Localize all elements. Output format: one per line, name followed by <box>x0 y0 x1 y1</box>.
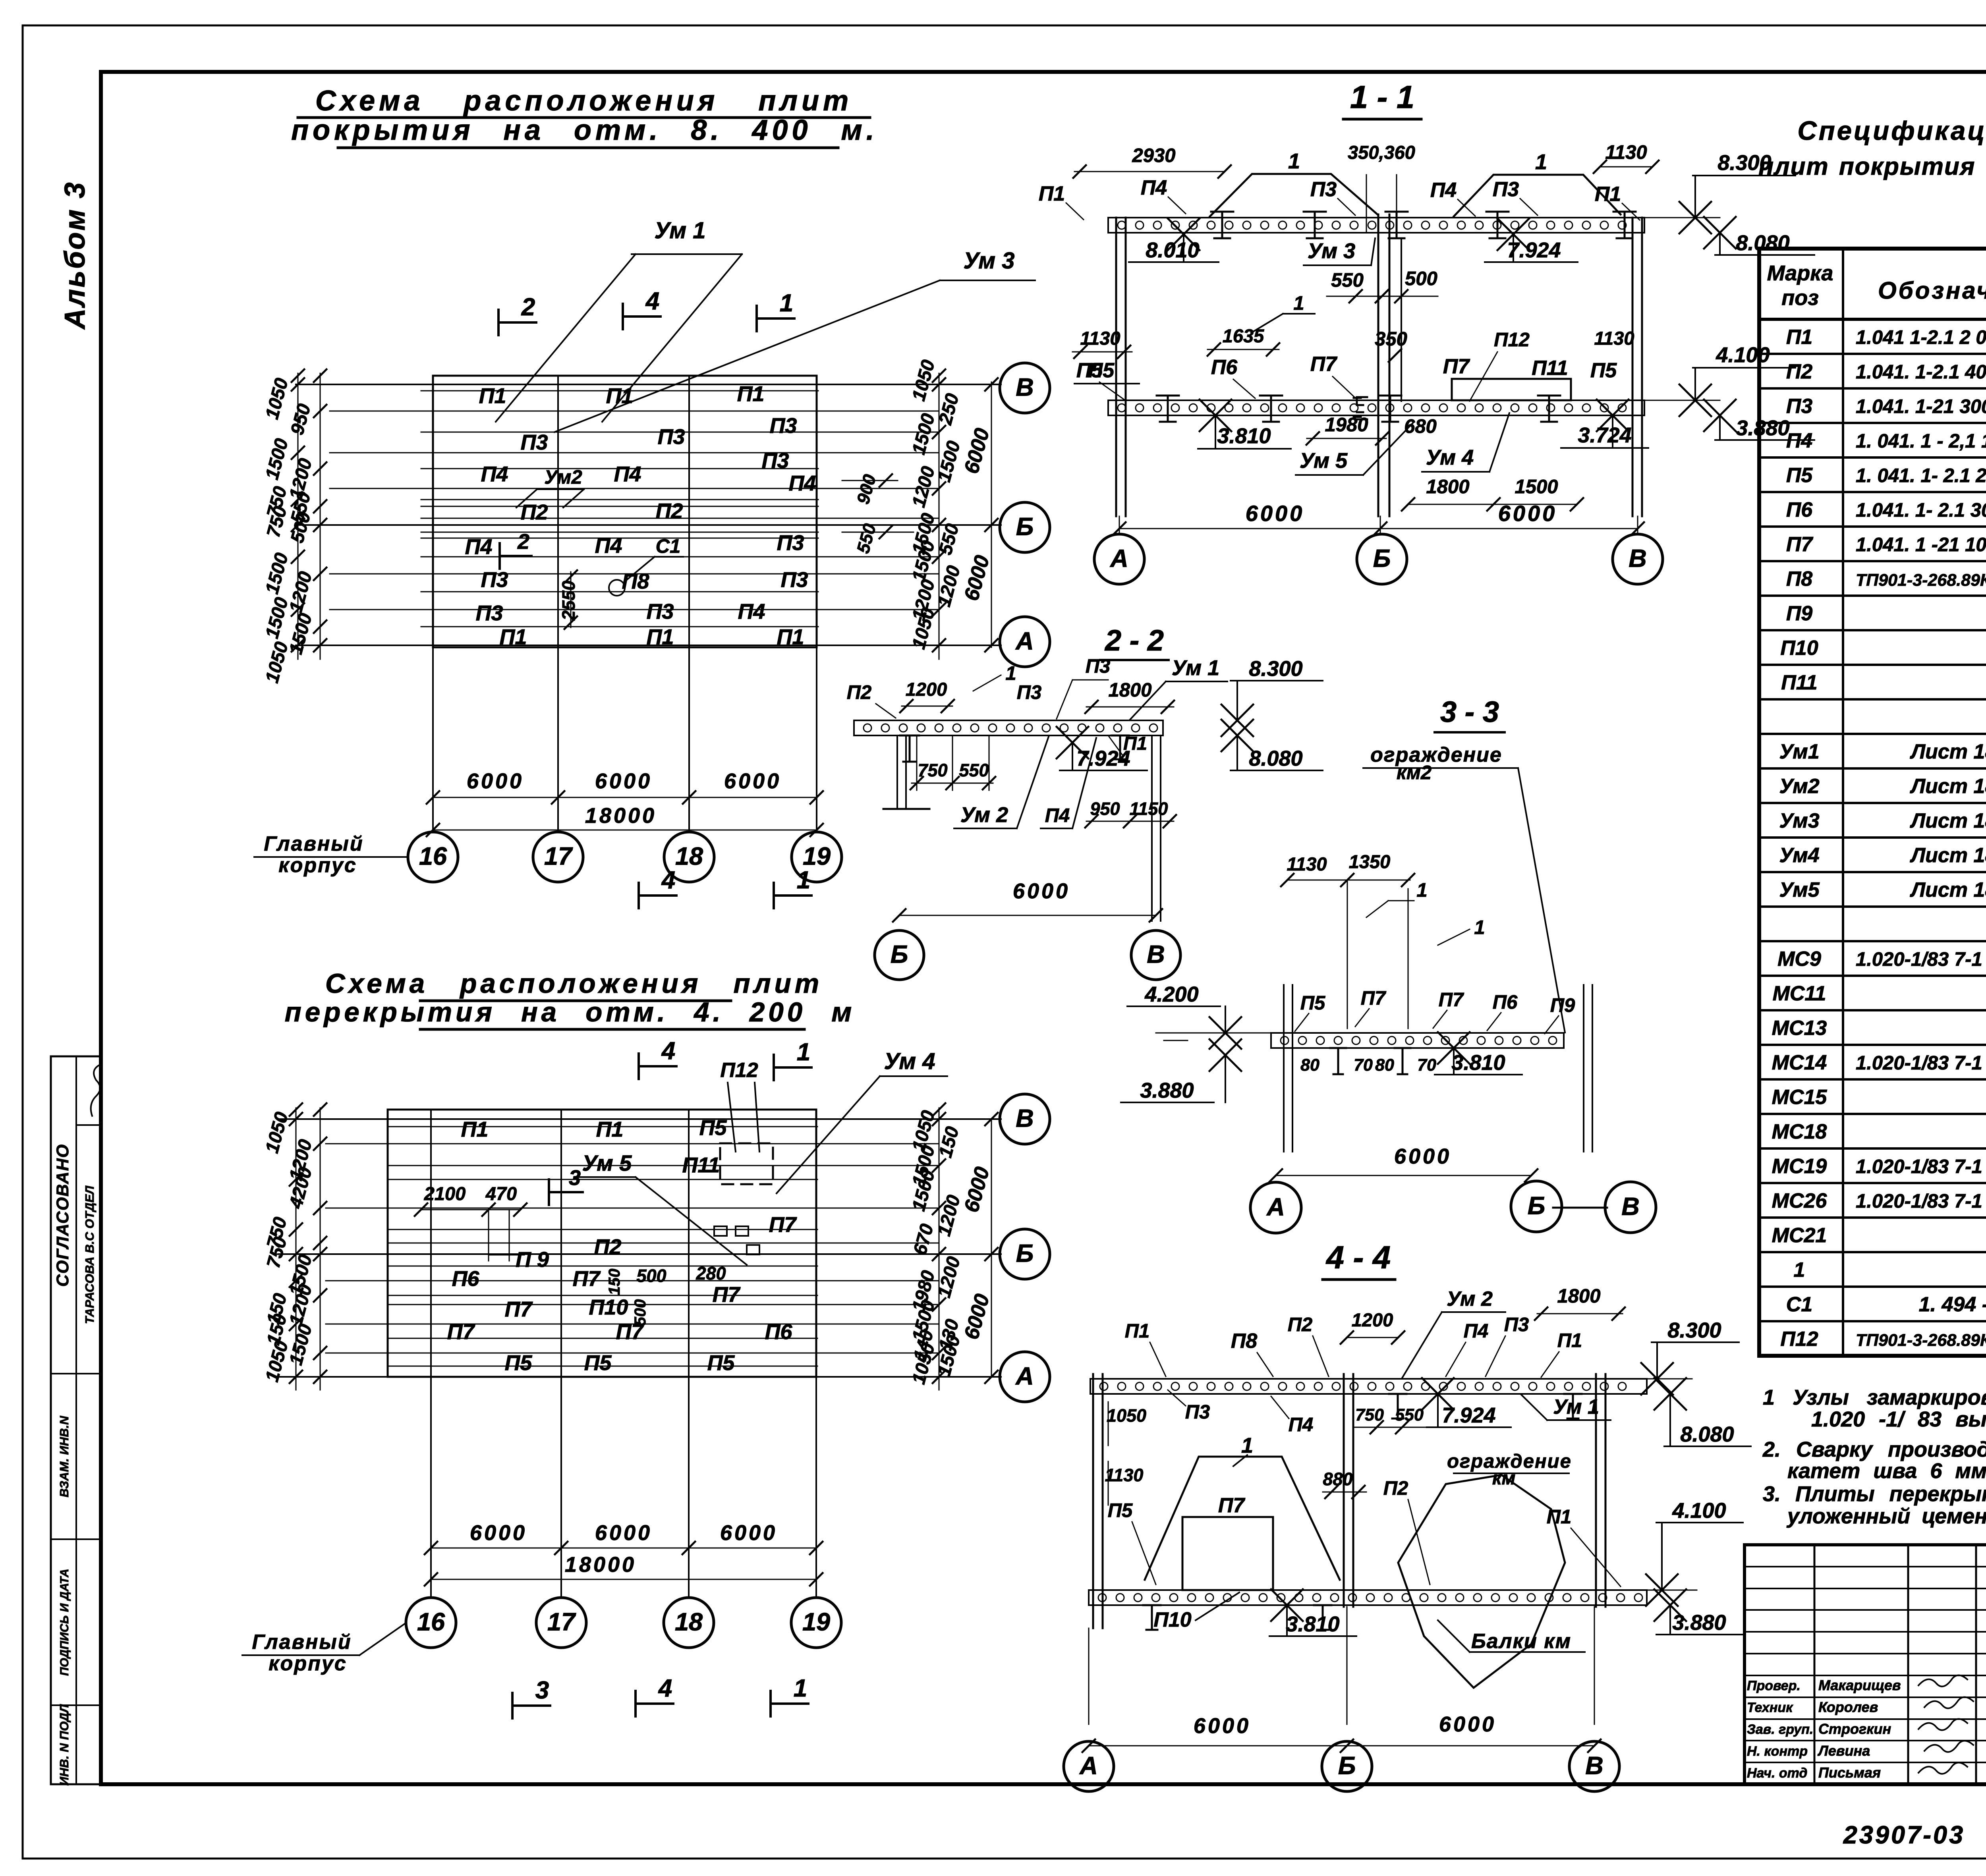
svg-text:3.810: 3.810 <box>1217 424 1271 448</box>
svg-text:7.924: 7.924 <box>1507 238 1561 262</box>
svg-text:П5: П5 <box>707 1351 735 1375</box>
svg-text:В: В <box>1147 941 1165 969</box>
svg-text:П3: П3 <box>762 449 789 473</box>
svg-text:П3: П3 <box>521 430 548 454</box>
svg-text:2: 2 <box>517 530 529 554</box>
svg-text:1.041. 1 -21 100-02: 1.041. 1 -21 100-02 <box>1856 534 1986 556</box>
svg-text:1500: 1500 <box>1515 476 1558 498</box>
svg-text:6000: 6000 <box>960 426 994 476</box>
svg-text:П9: П9 <box>1550 995 1575 1016</box>
svg-text:П10: П10 <box>1153 1608 1191 1631</box>
svg-text:18: 18 <box>675 843 703 870</box>
svg-text:3.880: 3.880 <box>1140 1079 1194 1102</box>
svg-text:6000: 6000 <box>595 1521 652 1545</box>
svg-text:1980: 1980 <box>1325 414 1368 436</box>
svg-text:П3: П3 <box>1786 395 1812 418</box>
svg-text:1: 1 <box>794 1675 807 1702</box>
svg-text:МС21: МС21 <box>1772 1224 1827 1247</box>
svg-text:1200: 1200 <box>1352 1309 1393 1330</box>
svg-text:16: 16 <box>417 1608 445 1636</box>
svg-text:8.080: 8.080 <box>1680 1422 1734 1446</box>
svg-text:П6: П6 <box>1211 356 1238 379</box>
svg-text:П7: П7 <box>713 1283 741 1307</box>
svg-text:Балки км: Балки км <box>1471 1630 1571 1653</box>
svg-text:1200: 1200 <box>908 464 939 510</box>
svg-text:В: В <box>1585 1752 1603 1780</box>
svg-text:1800: 1800 <box>1426 476 1469 498</box>
svg-text:П4: П4 <box>1289 1414 1314 1436</box>
svg-text:П3: П3 <box>777 531 804 555</box>
svg-text:2930: 2930 <box>1132 145 1175 166</box>
svg-text:19: 19 <box>802 1608 830 1636</box>
svg-text:П4: П4 <box>1786 429 1812 452</box>
svg-text:Ум 3: Ум 3 <box>963 248 1014 274</box>
svg-text:П1: П1 <box>1547 1506 1572 1528</box>
svg-text:Альбом 3: Альбом 3 <box>59 181 91 330</box>
svg-text:1050: 1050 <box>261 1110 292 1155</box>
svg-text:А: А <box>1266 1193 1285 1221</box>
svg-text:П7: П7 <box>769 1213 798 1237</box>
svg-text:Б: Б <box>1016 1240 1034 1268</box>
svg-text:Ум3: Ум3 <box>1779 809 1819 832</box>
svg-text:2100: 2100 <box>424 1183 466 1204</box>
svg-text:Ум 2: Ум 2 <box>1447 1287 1493 1310</box>
svg-text:Лист 18,19: Лист 18,19 <box>1909 844 1986 867</box>
svg-text:ТП901-3-268.89КЖ.И 90.0.0.0: ТП901-3-268.89КЖ.И 90.0.0.0 <box>1856 571 1986 590</box>
svg-text:П6: П6 <box>1493 992 1518 1013</box>
svg-text:4.100: 4.100 <box>1672 1499 1726 1523</box>
svg-text:17: 17 <box>547 1608 576 1636</box>
svg-text:П3: П3 <box>476 601 503 625</box>
svg-text:П4: П4 <box>595 534 622 558</box>
svg-text:плит покрытия и перекрытия: плит покрытия и перекрытия на отм. 8.400… <box>1758 153 1986 180</box>
svg-text:Ум 4: Ум 4 <box>1426 446 1474 469</box>
svg-text:1 Узлы замаркированные на: 1 Узлы замаркированные на листе см. сери… <box>1763 1386 1986 1409</box>
svg-text:Нач. отд: Нач. отд <box>1747 1766 1807 1781</box>
svg-text:МС19: МС19 <box>1772 1155 1827 1178</box>
svg-text:6000: 6000 <box>1394 1145 1451 1168</box>
svg-text:П8: П8 <box>1786 567 1812 591</box>
svg-text:4: 4 <box>661 867 675 894</box>
svg-text:1: 1 <box>780 290 793 317</box>
svg-text:П11: П11 <box>682 1153 720 1177</box>
svg-text:П5: П5 <box>1590 359 1617 382</box>
svg-text:1050: 1050 <box>261 376 292 421</box>
svg-text:1.041. 1-2.1 400: 1.041. 1-2.1 400 <box>1856 361 1986 383</box>
svg-text:280: 280 <box>695 1263 726 1283</box>
svg-text:1.041 1-2.1 2 00: 1.041 1-2.1 2 00 <box>1856 327 1986 348</box>
svg-text:6000: 6000 <box>1498 501 1557 526</box>
svg-text:П1: П1 <box>1125 1320 1150 1342</box>
svg-text:4: 4 <box>645 288 659 315</box>
svg-text:1: 1 <box>797 867 810 894</box>
svg-text:П1: П1 <box>596 1117 624 1141</box>
svg-text:П4: П4 <box>1464 1320 1489 1342</box>
svg-text:8.300: 8.300 <box>1249 657 1302 681</box>
svg-text:Ум 5: Ум 5 <box>1300 449 1348 473</box>
svg-text:П7: П7 <box>1439 989 1464 1011</box>
svg-text:900: 900 <box>853 472 880 506</box>
svg-text:6000: 6000 <box>960 1164 994 1215</box>
svg-text:П10: П10 <box>589 1295 628 1319</box>
svg-text:П6: П6 <box>765 1320 793 1344</box>
svg-text:Лист 18,19: Лист 18,19 <box>1909 809 1986 832</box>
svg-text:350,360: 350,360 <box>1348 142 1415 163</box>
svg-text:А: А <box>1015 627 1034 655</box>
svg-text:6000: 6000 <box>595 769 652 793</box>
svg-text:1500: 1500 <box>285 1322 316 1367</box>
svg-text:Б: Б <box>1373 545 1391 573</box>
svg-text:П5: П5 <box>1108 1500 1133 1521</box>
svg-text:П5: П5 <box>505 1351 533 1375</box>
svg-text:П7: П7 <box>573 1267 601 1291</box>
svg-text:550: 550 <box>1331 270 1364 291</box>
svg-text:80: 80 <box>1375 1056 1394 1075</box>
svg-text:1800: 1800 <box>1557 1285 1600 1307</box>
svg-text:1050: 1050 <box>908 357 939 403</box>
svg-text:1.041. 1- 2.1 300-02: 1.041. 1- 2.1 300-02 <box>1856 500 1986 521</box>
svg-text:4: 4 <box>658 1675 672 1702</box>
svg-text:П7: П7 <box>1218 1494 1245 1517</box>
svg-text:1: 1 <box>1794 1258 1805 1282</box>
svg-text:П1: П1 <box>1039 182 1065 205</box>
svg-text:уложенный цементный раствор: уложенный цементный раствор марки 100. <box>1786 1504 1986 1528</box>
svg-text:П2: П2 <box>1288 1314 1313 1336</box>
svg-text:П3: П3 <box>770 414 797 438</box>
svg-text:Главный: Главный <box>252 1631 352 1654</box>
svg-text:Марка: Марка <box>1767 261 1833 285</box>
svg-text:2550: 2550 <box>558 581 579 621</box>
svg-text:Письмая: Письмая <box>1818 1764 1881 1781</box>
svg-text:8.300: 8.300 <box>1667 1318 1721 1342</box>
svg-text:П12: П12 <box>1780 1328 1818 1351</box>
svg-text:МС9: МС9 <box>1777 948 1821 971</box>
svg-text:П3: П3 <box>1017 682 1042 703</box>
svg-text:ТАРАСОВА В.С ОТДЕЛ: ТАРАСОВА В.С ОТДЕЛ <box>83 1185 97 1324</box>
svg-text:1: 1 <box>1416 880 1427 901</box>
svg-text:Б: Б <box>1016 513 1034 541</box>
svg-text:П5: П5 <box>699 1116 727 1140</box>
svg-text:6000: 6000 <box>1013 879 1070 903</box>
svg-text:Ум 3: Ум 3 <box>1308 239 1355 263</box>
svg-text:Обозначение: Обозначение <box>1878 277 1986 304</box>
svg-text:МС18: МС18 <box>1772 1120 1827 1143</box>
svg-text:3 - 3: 3 - 3 <box>1440 695 1499 728</box>
svg-text:А: А <box>1079 1752 1098 1780</box>
svg-text:Зав. груп.: Зав. груп. <box>1747 1722 1813 1737</box>
svg-text:70: 70 <box>1417 1056 1436 1075</box>
svg-text:7.924: 7.924 <box>1076 747 1130 770</box>
svg-text:1500: 1500 <box>285 611 316 656</box>
svg-text:П6: П6 <box>452 1267 480 1291</box>
svg-text:С1: С1 <box>1786 1293 1812 1316</box>
svg-text:катет шва 6 мм: катет шва 6 мм <box>1787 1459 1986 1483</box>
svg-text:покрытия на отм. 8. 400 м: покрытия на отм. 8. 400 м. <box>291 114 878 146</box>
svg-text:П1: П1 <box>777 625 804 649</box>
svg-text:Б: Б <box>1338 1752 1356 1780</box>
svg-text:МС14: МС14 <box>1772 1051 1827 1074</box>
svg-text:3.880: 3.880 <box>1736 416 1789 440</box>
svg-text:18000: 18000 <box>565 1553 636 1577</box>
svg-text:П10: П10 <box>1780 637 1818 660</box>
svg-text:Макарищев: Макарищев <box>1818 1677 1901 1693</box>
svg-text:1200: 1200 <box>906 679 947 700</box>
svg-text:П12: П12 <box>1494 329 1530 351</box>
svg-text:8.080: 8.080 <box>1249 747 1302 770</box>
svg-text:П1: П1 <box>1786 326 1812 349</box>
svg-text:П5: П5 <box>1786 464 1813 487</box>
svg-text:3: 3 <box>535 1677 549 1704</box>
svg-text:П1: П1 <box>606 384 634 408</box>
svg-text:МС11: МС11 <box>1773 982 1826 1005</box>
svg-text:МС26: МС26 <box>1772 1189 1828 1212</box>
svg-text:П4: П4 <box>738 600 765 623</box>
svg-text:П8: П8 <box>1231 1330 1257 1353</box>
svg-text:1. 041. 1- 2.1 200-01: 1. 041. 1- 2.1 200-01 <box>1856 465 1986 486</box>
svg-text:Ум 5: Ум 5 <box>582 1150 632 1175</box>
svg-text:ПОДПИСЬ И ДАТА: ПОДПИСЬ И ДАТА <box>58 1569 71 1676</box>
svg-text:70: 70 <box>1354 1056 1373 1075</box>
svg-text:ИНВ. N ПОДЛ: ИНВ. N ПОДЛ <box>57 1704 71 1786</box>
svg-text:670: 670 <box>909 1222 937 1257</box>
svg-text:6000: 6000 <box>1439 1712 1496 1736</box>
svg-text:П1: П1 <box>461 1117 489 1141</box>
svg-text:поз: поз <box>1781 286 1819 310</box>
svg-text:Ум 2: Ум 2 <box>960 803 1008 827</box>
svg-text:150: 150 <box>606 1269 623 1295</box>
svg-text:Ум 1: Ум 1 <box>1553 1395 1599 1419</box>
svg-text:1800: 1800 <box>1108 679 1151 701</box>
svg-text:П3: П3 <box>658 425 685 449</box>
svg-text:П5: П5 <box>584 1351 612 1375</box>
svg-text:П5: П5 <box>1076 359 1103 382</box>
svg-text:П4: П4 <box>481 462 508 486</box>
svg-text:П7: П7 <box>505 1297 533 1321</box>
svg-text:1130: 1130 <box>1605 142 1647 163</box>
svg-text:550: 550 <box>853 521 880 556</box>
svg-text:Ум1: Ум1 <box>1779 740 1819 763</box>
svg-text:6000: 6000 <box>724 769 781 793</box>
svg-text:1130: 1130 <box>1105 1465 1144 1485</box>
svg-text:1.020-1/83 7-1 080: 1.020-1/83 7-1 080 <box>1856 1191 1986 1212</box>
svg-text:1200: 1200 <box>933 1193 964 1238</box>
svg-text:П2: П2 <box>594 1235 622 1259</box>
svg-text:6000: 6000 <box>960 553 994 603</box>
svg-text:1.020 -1/ 83 вып. 6-1: 1.020 -1/ 83 вып. 6-1 <box>1811 1407 1986 1431</box>
svg-text:МС15: МС15 <box>1772 1086 1828 1109</box>
svg-text:В: В <box>1621 1193 1640 1221</box>
svg-text:1. 494 - 24: 1. 494 - 24 <box>1919 1293 1986 1316</box>
svg-text:ВЗАМ. ИНВ.N: ВЗАМ. ИНВ.N <box>57 1416 71 1498</box>
svg-text:П3: П3 <box>647 600 674 623</box>
svg-text:МС13: МС13 <box>1772 1017 1827 1040</box>
svg-text:Ум 4: Ум 4 <box>884 1048 935 1074</box>
svg-text:1 - 1: 1 - 1 <box>1350 79 1414 115</box>
svg-text:2. Сварку производить элек: 2. Сварку производить электродами Э42 ГО… <box>1762 1438 1986 1461</box>
svg-text:Лист 18,19: Лист 18,19 <box>1909 740 1986 763</box>
svg-text:П4: П4 <box>465 535 493 559</box>
svg-text:23907-03: 23907-03 <box>1843 1821 1965 1849</box>
svg-text:6000: 6000 <box>470 1521 527 1545</box>
svg-text:П2: П2 <box>847 682 872 703</box>
svg-text:1130: 1130 <box>1287 853 1327 874</box>
svg-text:1.020-1/83 7-1 0.50: 1.020-1/83 7-1 0.50 <box>1856 1052 1986 1074</box>
svg-text:Н. контр: Н. контр <box>1747 1744 1808 1759</box>
svg-text:П4: П4 <box>1045 805 1070 826</box>
svg-text:П11: П11 <box>1781 671 1817 694</box>
svg-text:П 9: П 9 <box>516 1248 549 1272</box>
svg-text:П1: П1 <box>737 382 765 406</box>
svg-text:1: 1 <box>1005 663 1016 684</box>
svg-text:1: 1 <box>1288 149 1300 173</box>
svg-text:Спецификация к схеме распо: Спецификация к схеме расположения <box>1797 116 1986 146</box>
svg-text:Лист 18,19: Лист 18,19 <box>1909 775 1986 798</box>
svg-text:П7: П7 <box>1786 533 1813 556</box>
svg-text:В: В <box>1016 1105 1034 1133</box>
svg-text:500: 500 <box>632 1299 649 1326</box>
svg-text:3. Плиты перекрытия и покр: 3. Плиты перекрытия и покрытия укладыват… <box>1763 1482 1986 1506</box>
svg-text:П1: П1 <box>647 625 674 649</box>
svg-text:1500: 1500 <box>261 550 292 596</box>
svg-text:470: 470 <box>485 1183 517 1204</box>
svg-text:4 - 4: 4 - 4 <box>1325 1240 1391 1276</box>
svg-text:П2: П2 <box>521 500 548 524</box>
svg-text:км2: км2 <box>1397 762 1432 784</box>
svg-text:1.020-1/83 7-1 030-01: 1.020-1/83 7-1 030-01 <box>1856 949 1986 970</box>
svg-text:Ум 1: Ум 1 <box>654 218 705 243</box>
svg-text:750: 750 <box>1355 1405 1384 1424</box>
svg-text:18000: 18000 <box>585 804 657 828</box>
svg-text:П2: П2 <box>1383 1478 1408 1499</box>
svg-text:Техник: Техник <box>1747 1700 1793 1715</box>
svg-text:П1: П1 <box>1557 1330 1582 1351</box>
svg-text:550: 550 <box>959 760 989 780</box>
svg-text:П4: П4 <box>1430 179 1457 202</box>
svg-text:перекрытия на отм. 4.: перекрытия на отм. 4. 200 м <box>285 997 856 1027</box>
svg-text:П2: П2 <box>1786 360 1812 383</box>
svg-text:Левина: Левина <box>1817 1743 1870 1759</box>
svg-text:км: км <box>1492 1467 1516 1488</box>
svg-text:Королев: Королев <box>1818 1699 1878 1715</box>
svg-text:П4: П4 <box>1141 176 1167 199</box>
svg-text:В: В <box>1016 374 1034 401</box>
svg-text:П3: П3 <box>781 568 808 592</box>
svg-text:В: В <box>1629 545 1647 573</box>
svg-text:500: 500 <box>1405 268 1437 290</box>
svg-text:1200: 1200 <box>933 563 964 609</box>
svg-text:1500: 1500 <box>908 411 939 457</box>
svg-text:А: А <box>1015 1363 1034 1390</box>
svg-text:1200: 1200 <box>285 569 316 615</box>
svg-text:4: 4 <box>661 1037 675 1065</box>
svg-text:Строгкин: Строгкин <box>1818 1721 1891 1737</box>
svg-text:3.810: 3.810 <box>1286 1612 1339 1636</box>
svg-text:П7: П7 <box>1443 355 1470 378</box>
svg-text:П3: П3 <box>481 568 508 592</box>
svg-text:П5: П5 <box>1300 992 1325 1014</box>
svg-text:1130: 1130 <box>1594 328 1634 349</box>
svg-text:3: 3 <box>569 1166 581 1190</box>
svg-text:950: 950 <box>286 401 314 437</box>
svg-text:1500: 1500 <box>933 438 964 484</box>
svg-text:2: 2 <box>521 293 535 321</box>
svg-text:Б: Б <box>1528 1192 1546 1220</box>
svg-text:6000: 6000 <box>1246 501 1305 526</box>
svg-text:Главный: Главный <box>264 832 363 855</box>
svg-text:Провер.: Провер. <box>1747 1678 1801 1693</box>
svg-text:Схема расположения плит: Схема расположения плит <box>325 968 823 999</box>
svg-text:П7: П7 <box>1361 988 1387 1009</box>
svg-text:Ум 1: Ум 1 <box>1172 656 1219 680</box>
svg-text:950: 950 <box>1090 799 1120 819</box>
svg-text:550: 550 <box>1395 1405 1424 1424</box>
svg-text:1: 1 <box>1241 1434 1253 1457</box>
svg-text:6000: 6000 <box>467 769 524 793</box>
svg-text:1: 1 <box>1474 917 1485 938</box>
svg-text:П11: П11 <box>1532 357 1568 380</box>
svg-text:П7: П7 <box>447 1320 476 1344</box>
svg-text:Ум4: Ум4 <box>1779 844 1819 867</box>
svg-text:6000: 6000 <box>1194 1714 1251 1738</box>
svg-text:1: 1 <box>797 1038 810 1066</box>
svg-text:П6: П6 <box>1786 498 1813 521</box>
svg-text:1: 1 <box>1535 150 1547 174</box>
svg-text:Схема расположения плит: Схема расположения плит <box>315 85 852 117</box>
svg-text:6000: 6000 <box>960 1291 994 1342</box>
svg-text:П2: П2 <box>656 499 683 523</box>
svg-text:Лист 18,19: Лист 18,19 <box>1909 878 1986 901</box>
svg-text:1500: 1500 <box>261 436 292 482</box>
svg-text:1. 041. 1 - 2,1 100: 1. 041. 1 - 2,1 100 <box>1856 430 1986 452</box>
svg-text:А: А <box>1109 545 1128 573</box>
svg-text:Ум2: Ум2 <box>544 467 582 488</box>
svg-text:П1: П1 <box>479 384 506 408</box>
svg-text:ограждение: ограждение <box>1370 743 1502 766</box>
svg-text:1.020-1/83 7-1 050-02: 1.020-1/83 7-1 050-02 <box>1856 1156 1986 1177</box>
svg-text:СОГЛАСОВАНО: СОГЛАСОВАНО <box>53 1144 72 1287</box>
svg-text:П12: П12 <box>720 1059 758 1082</box>
svg-text:80: 80 <box>1300 1056 1319 1075</box>
svg-text:1200: 1200 <box>933 1254 964 1300</box>
svg-text:П3: П3 <box>1185 1401 1210 1423</box>
svg-text:Б: Б <box>891 941 908 969</box>
svg-text:ТП901-3-268.89КЖ.И 60.0.0.00: ТП901-3-268.89КЖ.И 60.0.0.00 <box>1856 1331 1986 1350</box>
svg-text:П4: П4 <box>614 462 641 486</box>
svg-text:П7: П7 <box>1310 353 1337 376</box>
svg-text:П9: П9 <box>1786 602 1812 625</box>
svg-text:6000: 6000 <box>720 1521 777 1545</box>
svg-text:2 - 2: 2 - 2 <box>1104 624 1164 657</box>
svg-text:1.041. 1-21 300: 1.041. 1-21 300 <box>1856 396 1986 417</box>
svg-text:С1: С1 <box>656 536 681 557</box>
svg-text:П3: П3 <box>1086 656 1111 677</box>
svg-text:П3: П3 <box>1504 1314 1529 1336</box>
svg-text:П4: П4 <box>789 471 816 495</box>
svg-text:350: 350 <box>1375 328 1407 350</box>
svg-text:17: 17 <box>544 843 573 870</box>
svg-text:1050: 1050 <box>1107 1405 1146 1426</box>
svg-text:4.200: 4.200 <box>1144 982 1198 1006</box>
svg-text:500: 500 <box>636 1266 666 1286</box>
svg-text:18: 18 <box>675 1608 703 1636</box>
svg-text:1: 1 <box>1293 293 1304 314</box>
svg-text:8.080: 8.080 <box>1736 231 1789 255</box>
svg-text:16: 16 <box>419 843 447 870</box>
svg-text:П3: П3 <box>1310 178 1337 201</box>
svg-text:Ум2: Ум2 <box>1779 775 1819 798</box>
svg-text:П1: П1 <box>500 625 527 649</box>
svg-text:Ум5: Ум5 <box>1779 878 1820 901</box>
